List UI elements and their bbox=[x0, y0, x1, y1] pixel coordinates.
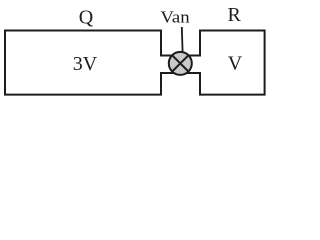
wire: bottom-right stub from lamp to box R bbox=[181, 72, 201, 74]
svg-text:Q: Q bbox=[79, 7, 94, 29]
lamp Van (crossed-circle lamp symbol) bbox=[169, 52, 192, 75]
wire: bottom-left stub from box Q to lamp bbox=[160, 72, 180, 74]
svg-text:Van: Van bbox=[160, 8, 190, 27]
wire: leader line from label Van to lamp bbox=[181, 27, 184, 52]
wire: top-left stub from box Q to lamp bbox=[160, 55, 180, 57]
box R (voltmeter box) bbox=[200, 31, 265, 95]
wire: top-right stub from lamp to box R bbox=[181, 55, 201, 57]
svg-text:R: R bbox=[228, 4, 242, 26]
svg-text:3V: 3V bbox=[73, 53, 98, 75]
box Q (3V battery box) bbox=[5, 31, 161, 95]
svg-text:V: V bbox=[228, 53, 243, 75]
